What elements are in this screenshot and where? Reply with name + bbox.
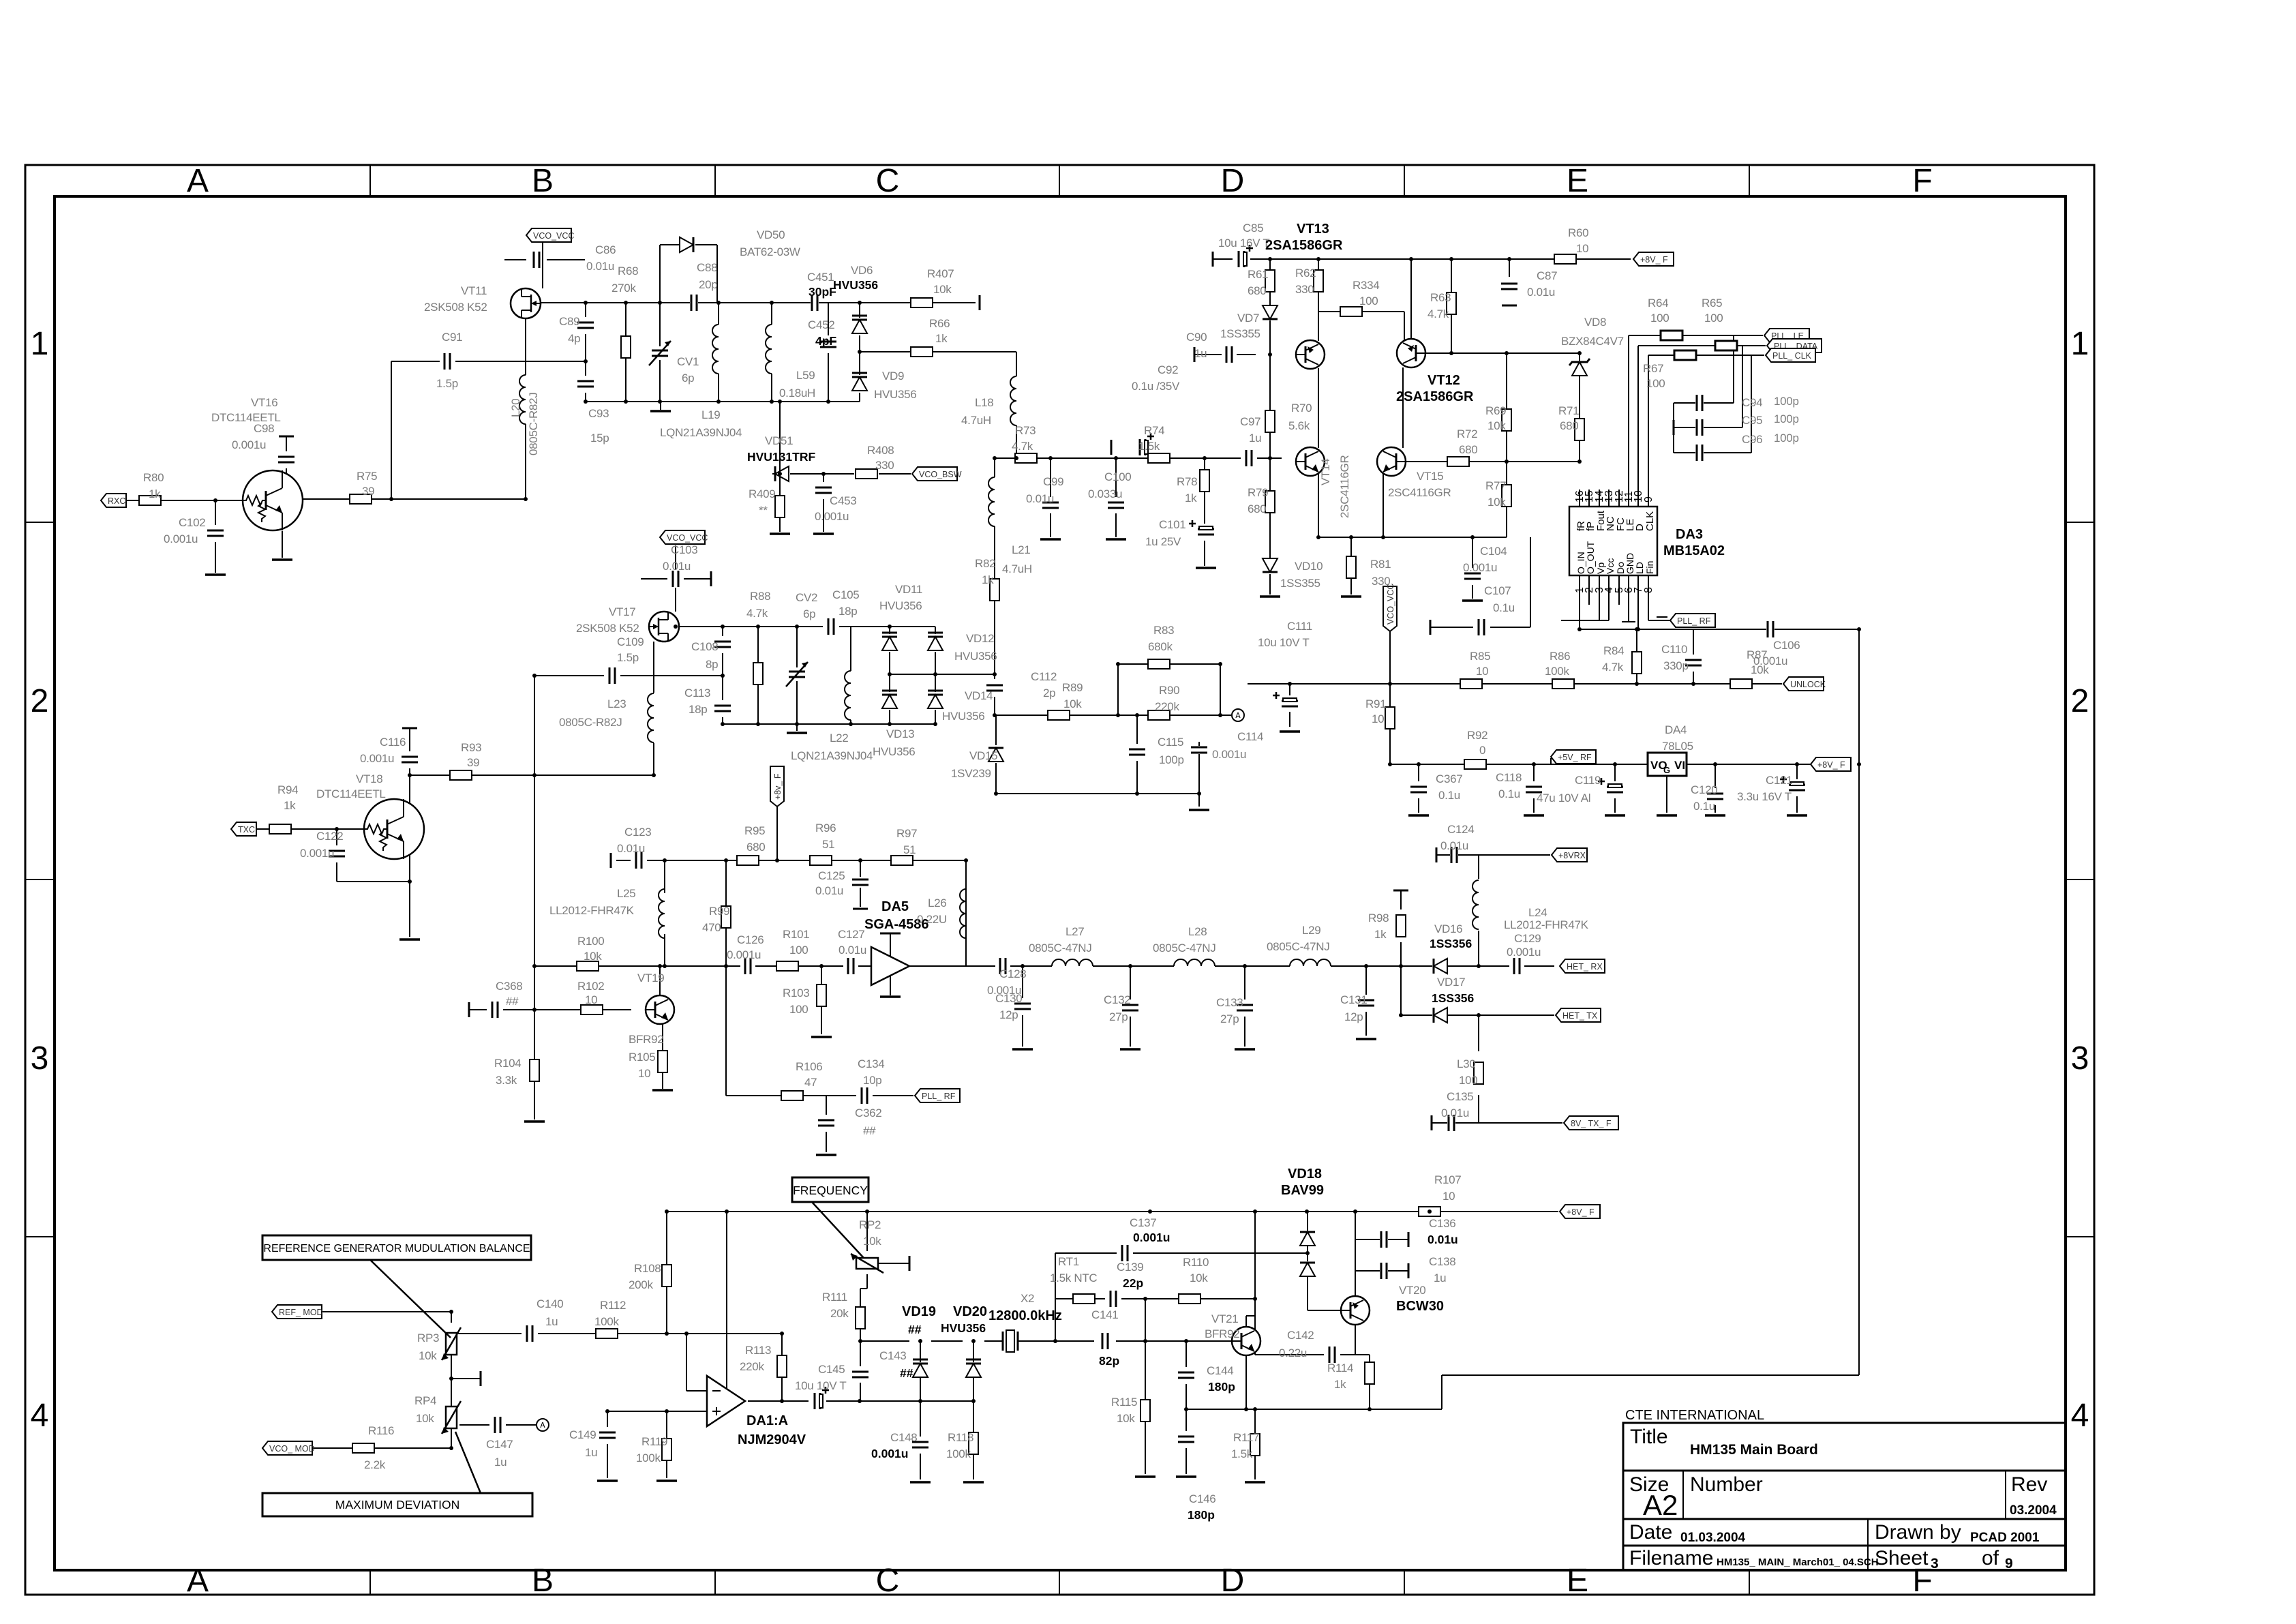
- svg-text:HVU356: HVU356: [874, 388, 916, 401]
- svg-text:R100: R100: [577, 935, 604, 948]
- svg-text:HVU356: HVU356: [879, 599, 922, 612]
- svg-text:1k: 1k: [1334, 1378, 1346, 1391]
- svg-text:0.1u: 0.1u: [1498, 787, 1520, 800]
- resistor R334: [1340, 307, 1362, 316]
- svg-text:+8VRX: +8VRX: [1558, 851, 1586, 860]
- svg-text:L22: L22: [830, 732, 848, 745]
- svg-text:R101: R101: [783, 928, 809, 941]
- svg-text:8V_ TX_ F: 8V_ TX_ F: [1571, 1119, 1612, 1128]
- svg-text:0805C-R82J: 0805C-R82J: [559, 716, 622, 729]
- svg-text:100: 100: [1646, 377, 1665, 390]
- resistor R99: [721, 906, 731, 928]
- wire C94-C96 bank: [1674, 335, 1751, 453]
- net flag VCO_BSW: [912, 467, 957, 481]
- svg-text:VD8: VD8: [1584, 316, 1606, 329]
- resistor R60: [1554, 254, 1576, 264]
- svg-text:1SS356: 1SS356: [1432, 991, 1475, 1005]
- diode VD20 HVU356: [966, 1364, 981, 1377]
- transistor VT11 2SK508: [511, 288, 541, 318]
- wire R78 branch: [1204, 458, 1205, 566]
- svg-text:A: A: [187, 1563, 209, 1599]
- resistor R104: [530, 1059, 539, 1081]
- svg-text:B: B: [532, 1563, 554, 1599]
- svg-text:C362: C362: [855, 1107, 881, 1119]
- wire bottom line y=1164: [996, 793, 1199, 794]
- diode VD10 1SS355: [1263, 558, 1278, 572]
- svg-text:4p: 4p: [568, 332, 580, 345]
- svg-text:Filename: Filename: [1629, 1547, 1713, 1569]
- svg-text:PLL_ RF: PLL_ RF: [922, 1092, 956, 1101]
- svg-text:100k: 100k: [594, 1315, 619, 1328]
- ground R103: [811, 1036, 832, 1038]
- svg-text:10p: 10p: [863, 1074, 881, 1087]
- svg-text:0.01u: 0.01u: [617, 842, 645, 855]
- terminator C107: [1430, 620, 1432, 635]
- wire VD19 column: [920, 1341, 921, 1401]
- svg-text:C452: C452: [808, 318, 834, 331]
- capacitor C145 polarized: [813, 1392, 821, 1410]
- svg-text:C127: C127: [838, 928, 864, 941]
- svg-text:3: 3: [2071, 1040, 2089, 1077]
- wire C453 shunt: [823, 474, 824, 532]
- wire VT12 emitter up: [1410, 259, 1412, 339]
- svg-text:01.03.2004: 01.03.2004: [1680, 1531, 1746, 1545]
- svg-text:R116: R116: [368, 1424, 394, 1437]
- terminator RP2: [909, 1256, 911, 1271]
- wire R105 to ground: [662, 1072, 663, 1089]
- svg-text:VD7: VD7: [1237, 312, 1259, 325]
- terminal A (RP4): [537, 1419, 549, 1431]
- ground C133: [1235, 1048, 1255, 1051]
- resistor R409: [775, 496, 785, 517]
- wire L21 column: [995, 458, 1016, 477]
- svg-text:R113: R113: [745, 1344, 771, 1357]
- wire R99 column: [725, 860, 727, 966]
- svg-text:C367: C367: [1436, 772, 1462, 785]
- svg-text:RP4: RP4: [414, 1394, 436, 1407]
- net flag PLL_CLK: [1766, 348, 1815, 362]
- wire VT19 collector: [659, 966, 661, 995]
- wire L22 drop: [850, 627, 851, 724]
- svg-text:10u 10V T: 10u 10V T: [1258, 636, 1309, 649]
- capacitor C101 polarized: [1197, 528, 1215, 536]
- svg-text:0.1u: 0.1u: [1493, 601, 1515, 614]
- svg-text:1u: 1u: [1434, 1272, 1446, 1284]
- svg-text:0.01u: 0.01u: [1441, 1107, 1469, 1119]
- net flag PLL_RF (C134): [915, 1089, 960, 1102]
- potentiometer RP2: [856, 1258, 878, 1269]
- svg-text:10k: 10k: [863, 1235, 881, 1248]
- wire R115 column: [1145, 1341, 1146, 1474]
- capacitor C92 polarized: [1138, 438, 1147, 456]
- wire VCO2 VCC and C103 stub: [641, 545, 711, 612]
- wire REF_MOD line: [284, 1312, 451, 1323]
- wire RP4 column: [451, 1379, 452, 1448]
- svg-text:+8V_ F: +8V_ F: [1640, 255, 1668, 265]
- svg-text:Rev: Rev: [2011, 1473, 2047, 1496]
- wire C108/C113 stack: [722, 627, 723, 724]
- wire +8V rail y=380: [1213, 258, 1631, 260]
- resistor R65: [1715, 341, 1737, 350]
- resistor R83: [1148, 659, 1170, 669]
- svg-text:R409: R409: [749, 487, 775, 500]
- ground C100: [1106, 538, 1126, 541]
- regulator DA4 78L05: [1648, 753, 1687, 776]
- ground C132: [1120, 1048, 1141, 1051]
- svg-text:8p: 8p: [706, 658, 718, 671]
- ground R115: [1135, 1475, 1155, 1478]
- wire VT12-VT15 column: [1402, 367, 1404, 448]
- wire C121 drop: [1796, 764, 1798, 813]
- svg-text:VCO_BSW: VCO_BSW: [919, 470, 962, 479]
- net flag HET_RX: [1560, 959, 1605, 973]
- svg-text:of: of: [1982, 1547, 1999, 1569]
- ground C130: [1012, 1048, 1033, 1051]
- wire C131 drop: [1365, 966, 1367, 1036]
- svg-text:6p: 6p: [803, 607, 815, 620]
- resistor R73: [1015, 453, 1037, 463]
- wire VCO_VCC flag stub: [1389, 631, 1391, 684]
- resistor R79: [1265, 491, 1275, 513]
- svg-text:R83: R83: [1153, 624, 1174, 637]
- svg-text:0.1u /35V: 0.1u /35V: [1132, 380, 1180, 393]
- varactor VD13: [882, 695, 897, 708]
- svg-text:4: 4: [2071, 1398, 2089, 1434]
- terminator C136: [1408, 1232, 1410, 1247]
- transistor VT15 2SC4116GR: [1377, 447, 1406, 476]
- varactor CV2: [788, 670, 806, 678]
- svg-text:C132: C132: [1104, 993, 1130, 1006]
- svg-text:0.1u: 0.1u: [1693, 800, 1715, 813]
- ground R105: [652, 1089, 673, 1092]
- ground C120: [1705, 814, 1725, 817]
- svg-text:Drawn by: Drawn by: [1875, 1521, 1961, 1544]
- svg-text:L19: L19: [701, 408, 720, 421]
- svg-text:03.2004: 03.2004: [2010, 1503, 2057, 1518]
- svg-text:0: 0: [1479, 744, 1485, 757]
- wire +5V_RF stub: [1550, 758, 1552, 764]
- wire PLL_LE line: [1629, 335, 1763, 336]
- capacitor C85 polarized: [1237, 250, 1245, 268]
- wire +8v_F flag stub: [776, 807, 778, 860]
- svg-text:R73: R73: [1015, 424, 1036, 437]
- svg-text:0.001u: 0.001u: [727, 948, 761, 961]
- net flag PLL_RF (DA3): [1670, 614, 1715, 627]
- svg-text:100k: 100k: [946, 1447, 971, 1460]
- wire C368/R102 line y=1481: [469, 1009, 631, 1010]
- capacitor C120: [1706, 792, 1724, 800]
- capacitor C94: [1695, 394, 1704, 412]
- capacitor C138: [1380, 1262, 1388, 1280]
- svg-text:C130: C130: [995, 992, 1022, 1005]
- svg-text:10k: 10k: [933, 283, 952, 296]
- svg-text:A: A: [187, 163, 209, 199]
- IC DA3 MB15A02: [1569, 507, 1657, 575]
- wire R113 column: [781, 1334, 783, 1401]
- resistor R111: [856, 1307, 865, 1329]
- svg-text:C88: C88: [697, 261, 717, 274]
- svg-text:VD19: VD19: [902, 1304, 936, 1319]
- ground C362: [816, 1154, 836, 1156]
- resistor R69: [1502, 409, 1511, 431]
- svg-text:1SS356: 1SS356: [1430, 937, 1472, 950]
- capacitor C107: [1477, 618, 1485, 636]
- capacitor C106: [1766, 620, 1774, 638]
- svg-text:1u: 1u: [585, 1446, 597, 1459]
- svg-text:C137: C137: [1130, 1216, 1156, 1229]
- svg-text:1: 1: [2071, 326, 2089, 362]
- svg-text:L25: L25: [617, 887, 635, 900]
- capacitor C100: [1107, 501, 1125, 509]
- svg-text:4pF: 4pF: [815, 334, 836, 348]
- svg-text:C368: C368: [496, 980, 522, 993]
- wire VD6 junction to R66: [860, 352, 1016, 376]
- svg-text:+8v_ F: +8v_ F: [773, 773, 783, 800]
- wire VCO1 bottom rail y=589: [586, 402, 860, 410]
- svg-text:VT12: VT12: [1428, 373, 1460, 388]
- ground DA5: [880, 995, 901, 998]
- svg-text:LQN21A39NJ04: LQN21A39NJ04: [791, 749, 873, 762]
- wire C122 drop: [337, 829, 410, 882]
- svg-text:10k: 10k: [1117, 1412, 1135, 1425]
- svg-text:3.3u 16V T: 3.3u 16V T: [1737, 790, 1792, 803]
- svg-text:F: F: [1912, 163, 1932, 199]
- capacitor C113: [714, 704, 731, 712]
- svg-text:VD50: VD50: [757, 228, 785, 241]
- capacitor C96: [1695, 444, 1704, 462]
- svg-text:R66: R66: [929, 317, 950, 330]
- wire C107 line: [1430, 537, 1530, 627]
- wire R70 in column: [1269, 355, 1271, 410]
- svg-text:R81: R81: [1370, 558, 1391, 571]
- resistor R108: [662, 1265, 671, 1287]
- resistor R66: [911, 347, 933, 357]
- inductor L28: [1174, 959, 1215, 966]
- wire C148 column: [920, 1401, 921, 1479]
- wire C142 line: [1255, 1355, 1370, 1409]
- wire R89/R90 line y=1049: [995, 715, 1231, 716]
- capacitor C147: [494, 1416, 502, 1434]
- svg-text:VT13: VT13: [1297, 222, 1329, 237]
- capacitor C93: [577, 380, 594, 388]
- svg-text:VI: VI: [1674, 759, 1685, 772]
- capacitor C368: [491, 1001, 499, 1019]
- svg-text:R102: R102: [577, 980, 604, 993]
- svg-text:0.01u: 0.01u: [839, 944, 866, 957]
- capacitor C124: [1450, 846, 1458, 864]
- capacitor C367: [1410, 785, 1428, 794]
- capacitor C88: [690, 294, 698, 312]
- ground R81: [1341, 595, 1361, 598]
- wire C87 drop: [1509, 259, 1510, 277]
- resistor R90: [1148, 710, 1170, 720]
- transistor VT14 2SC4116GR: [1296, 447, 1325, 476]
- svg-text:4.7uH: 4.7uH: [961, 414, 991, 427]
- varactor VD11: [882, 637, 897, 650]
- svg-text:C103: C103: [671, 543, 697, 556]
- wire C90 stub: [1194, 354, 1256, 355]
- svg-text:78L05: 78L05: [1662, 740, 1693, 753]
- wire C104 drop: [1472, 537, 1473, 599]
- svg-text:1k: 1k: [935, 332, 948, 345]
- wire osc line y=1967: [860, 1340, 1232, 1342]
- svg-text:Sheet: Sheet: [1875, 1547, 1929, 1569]
- svg-text:C125: C125: [818, 869, 845, 882]
- svg-text:27p: 27p: [1220, 1012, 1239, 1025]
- svg-text:C101: C101: [1159, 518, 1185, 531]
- svg-text:C133: C133: [1216, 996, 1243, 1009]
- svg-text:1.5k: 1.5k: [1231, 1447, 1253, 1460]
- wire CV2 drop: [796, 627, 798, 724]
- resistor R107: [1419, 1207, 1440, 1216]
- wire R79/VD10 column: [1269, 458, 1271, 595]
- svg-text:20k: 20k: [830, 1307, 849, 1320]
- net flag RXC: [101, 494, 126, 507]
- svg-text:FREQUENCY: FREQUENCY: [793, 1184, 868, 1197]
- svg-text:DTC114EETL: DTC114EETL: [316, 787, 386, 800]
- svg-text:R71: R71: [1558, 404, 1579, 417]
- svg-text:RP3: RP3: [417, 1332, 439, 1344]
- wire C109 line: [534, 675, 723, 676]
- svg-text:3.3k: 3.3k: [496, 1074, 517, 1087]
- terminator C103: [710, 571, 712, 586]
- wire RT1/C139 branch y=1905: [1055, 1298, 1255, 1299]
- ground C453: [813, 532, 834, 535]
- ground DA4: [1657, 814, 1677, 817]
- terminator C92: [1111, 440, 1113, 455]
- op-amp DA1:A NJM2904V: [707, 1376, 745, 1426]
- net flag +5V_RF: [1551, 750, 1596, 764]
- wire C110 column: [1693, 629, 1694, 684]
- svg-text:BFR92: BFR92: [629, 1033, 663, 1046]
- resistor R116: [352, 1443, 374, 1453]
- svg-text:5.6k: 5.6k: [1288, 419, 1310, 432]
- svg-text:VD12: VD12: [966, 632, 994, 645]
- svg-text:12p: 12p: [1344, 1010, 1363, 1023]
- net flag +8V_F top: [1633, 252, 1674, 266]
- wire right feedback vertical x=2727: [1858, 629, 1860, 1375]
- svg-text:R105: R105: [629, 1051, 655, 1064]
- capacitor C114: [1190, 746, 1208, 754]
- svg-text:330p: 330p: [1663, 659, 1689, 672]
- wire rail y=1003: [1248, 683, 1718, 685]
- net flag REF_MOD: [272, 1305, 322, 1319]
- wire R334 line: [1318, 312, 1404, 353]
- resistor R110: [1179, 1294, 1200, 1304]
- ground C367: [1408, 814, 1429, 817]
- ground VT18: [399, 938, 420, 941]
- svg-text:220k: 220k: [1155, 700, 1179, 713]
- callout FREQUENCY: [811, 1201, 872, 1267]
- wire VT21 emitter: [1245, 1355, 1247, 1409]
- svg-text:R63: R63: [1430, 291, 1451, 304]
- svg-text:18p: 18p: [839, 605, 857, 618]
- svg-text:100p: 100p: [1774, 412, 1799, 425]
- wire RP2 callout stub: [860, 1212, 867, 1307]
- wire L30 column: [1478, 1015, 1479, 1123]
- svg-text:C111: C111: [1287, 620, 1312, 633]
- resistor R70: [1265, 410, 1275, 432]
- capacitor C122: [328, 849, 346, 858]
- svg-text:L18: L18: [975, 396, 993, 409]
- svg-text:10k: 10k: [1487, 419, 1506, 432]
- svg-text:0805C-47NJ: 0805C-47NJ: [1153, 942, 1215, 954]
- svg-text:LD: LD: [1634, 562, 1645, 574]
- svg-text:X2: X2: [1021, 1292, 1034, 1305]
- transistor VT20 BCW30: [1341, 1296, 1370, 1325]
- diode VD7 1SS355: [1263, 305, 1278, 319]
- svg-text:VD16: VD16: [1434, 922, 1462, 935]
- resistor R103: [817, 984, 826, 1006]
- svg-text:10: 10: [585, 993, 597, 1006]
- svg-text:1: 1: [31, 326, 49, 362]
- ground VCO2: [787, 732, 807, 734]
- svg-text:B: B: [532, 163, 554, 199]
- svg-text:HM135_ MAIN_ March01_ 04.SCH: HM135_ MAIN_ March01_ 04.SCH: [1717, 1557, 1879, 1568]
- capacitor C137: [1121, 1244, 1129, 1262]
- svg-text:0.001u: 0.001u: [360, 752, 394, 765]
- wire C130 drop: [1022, 966, 1023, 1047]
- svg-text:0.001u: 0.001u: [1463, 561, 1497, 574]
- svg-text:VCO_VCC: VCO_VCC: [667, 533, 708, 543]
- capacitor C111 polarized: [1281, 700, 1299, 708]
- svg-text:MB15A02: MB15A02: [1663, 543, 1725, 558]
- wire C102 drop: [215, 500, 216, 573]
- terminator C125: [853, 908, 868, 910]
- svg-text:DA1:A: DA1:A: [746, 1413, 788, 1428]
- resistor R101: [776, 961, 798, 971]
- ground C148: [910, 1481, 931, 1484]
- svg-text:330: 330: [1295, 283, 1314, 296]
- svg-text:R117: R117: [1233, 1431, 1259, 1444]
- resistor R67: [1674, 350, 1696, 360]
- wire C85 entry: [1212, 252, 1213, 266]
- wire L20 column: [525, 318, 526, 499]
- terminator C94-96: [1673, 420, 1675, 435]
- svg-text:PLL_ CLK: PLL_ CLK: [1772, 351, 1812, 361]
- svg-text:2.2k: 2.2k: [364, 1458, 386, 1471]
- wire R81 to ground: [1350, 537, 1352, 595]
- svg-text:1u: 1u: [1194, 347, 1207, 360]
- wire VD18 column: [1308, 1212, 1340, 1310]
- svg-text:A: A: [540, 1421, 545, 1430]
- capacitor C129: [1513, 957, 1521, 975]
- ground R104: [524, 1120, 545, 1123]
- svg-text:PLL_ RF: PLL_ RF: [1677, 616, 1711, 626]
- svg-text:DA5: DA5: [881, 899, 909, 914]
- svg-text:30pF: 30pF: [809, 285, 836, 299]
- inductor L25: [659, 889, 665, 938]
- svg-text:REFERENCE GENERATOR MUDULATION: REFERENCE GENERATOR MUDULATION BALANCE: [263, 1243, 530, 1254]
- resistor R88: [753, 663, 763, 685]
- wire C100 drop: [1115, 458, 1117, 537]
- ground under CV1: [650, 410, 671, 412]
- capacitor C103: [671, 570, 680, 588]
- svg-text:C93: C93: [588, 407, 609, 420]
- wire C111 drop: [1289, 684, 1290, 695]
- ground C119: [1605, 814, 1625, 817]
- svg-text:VT11: VT11: [461, 284, 487, 297]
- varactor CV1: [651, 349, 669, 357]
- wire DA5 input rail: [664, 965, 871, 967]
- svg-text:VT17: VT17: [609, 605, 635, 618]
- svg-text:39: 39: [362, 485, 374, 498]
- capacitor C127: [847, 957, 855, 975]
- ground C104: [1462, 599, 1483, 602]
- wire C124 line: [1436, 854, 1550, 856]
- svg-text:2SK508 K52: 2SK508 K52: [576, 622, 639, 635]
- resistor R98: [1396, 915, 1406, 937]
